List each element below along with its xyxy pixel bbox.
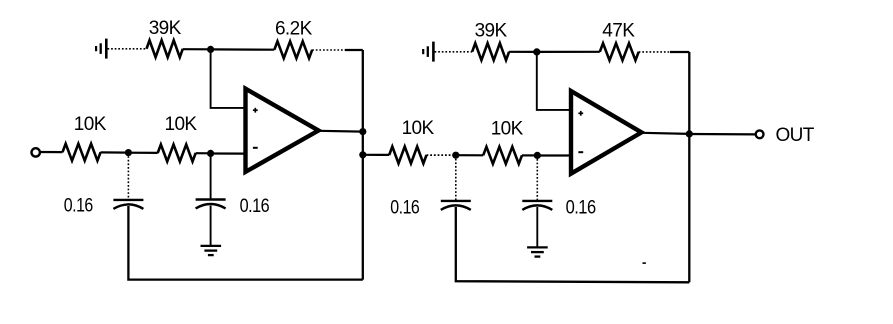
op-amp U1 xyxy=(246,89,319,172)
resistor R1 39K xyxy=(147,40,183,57)
node D (junction dot) xyxy=(207,150,214,157)
resistor R8 10K xyxy=(483,147,522,164)
wire R2 to feedback corner (part dotted) xyxy=(312,49,345,51)
svg-text:0.16: 0.16 xyxy=(390,198,419,219)
node E (junction dot) xyxy=(452,152,459,159)
svg-text:0.16: 0.16 xyxy=(64,195,93,216)
svg-text:10K: 10K xyxy=(164,114,197,135)
wire C4 to ground xyxy=(536,207,538,247)
wire C2 to ground xyxy=(210,206,212,246)
ground G3 (sideways, left of R5) xyxy=(423,42,433,62)
wire R4 to node D xyxy=(196,152,211,154)
wire node D down to C2 xyxy=(210,153,212,199)
ground G4 (below C4) xyxy=(527,247,548,256)
svg-text:47K: 47K xyxy=(602,21,635,42)
capacitor plate (curved) xyxy=(441,205,471,210)
node A (junction dot, top line stage 1) xyxy=(207,46,214,53)
resistor R4 10K xyxy=(158,145,196,162)
resistor R6 47K xyxy=(600,43,639,60)
capacitor C4 0.16 xyxy=(522,201,552,210)
wire node C to R4 xyxy=(128,152,157,154)
wire node E down to C3 (dotted) xyxy=(455,155,457,201)
capacitor plate (curved) xyxy=(196,204,226,209)
svg-text:0.16: 0.16 xyxy=(566,198,596,219)
resistor R2 6.2K xyxy=(274,41,312,58)
wire G1 to R1 (dotted) xyxy=(108,48,147,50)
capacitor C1 0.16 xyxy=(113,200,143,209)
node G (junction dot, top line stage 2) xyxy=(533,48,540,55)
node C (junction dot) xyxy=(125,149,132,156)
capacitor plate (straight) xyxy=(113,199,143,201)
capacitor C2 0.16 xyxy=(196,200,226,209)
svg-text:10K: 10K xyxy=(74,114,107,135)
svg-text:10K: 10K xyxy=(402,118,435,139)
capacitor plate (curved) xyxy=(522,205,552,210)
capacitor plate (straight) xyxy=(441,200,471,202)
wire node to R7 xyxy=(363,154,389,156)
node F (junction dot) xyxy=(534,152,541,159)
input terminal xyxy=(32,148,40,156)
op-amp U2 xyxy=(571,91,642,174)
capacitor plate (straight) xyxy=(196,198,226,200)
node B (U1 output junction) xyxy=(359,128,366,135)
ground G2 (below C2) xyxy=(201,246,222,255)
resistor R3 10K xyxy=(63,144,101,161)
svg-text:10K: 10K xyxy=(491,119,524,140)
capacitor plate (straight) xyxy=(522,200,552,202)
OUT terminal xyxy=(756,130,764,138)
wire node D to U1 inverting input xyxy=(211,152,246,154)
wire C3 to bottom feedback line xyxy=(456,207,690,282)
wire node H to OUT terminal xyxy=(689,133,755,136)
wire R3 to node C xyxy=(101,151,129,153)
svg-text:6.2K: 6.2K xyxy=(275,19,313,40)
resistor R5 39K xyxy=(472,43,509,60)
stray speck xyxy=(643,262,646,264)
wire vertical feedback bus stage 1 (x=363) xyxy=(362,50,364,280)
wire node F to U2 inverting input xyxy=(537,154,571,156)
wire G3 to R5 (dotted) xyxy=(435,51,473,53)
wire node A down to + input xyxy=(211,49,246,108)
wire node G down to + input xyxy=(537,52,571,110)
svg-text:0.16: 0.16 xyxy=(240,196,270,217)
capacitor plate (curved) xyxy=(113,204,143,209)
wire input to R3 xyxy=(40,151,63,153)
ground G1 (sideways, left of R1) xyxy=(96,39,106,59)
wire node E to R8 xyxy=(456,154,483,156)
capacitor C3 0.16 xyxy=(441,201,471,210)
svg-text:39K: 39K xyxy=(149,18,182,39)
wire U1 output to bus xyxy=(319,130,363,133)
wire node C down to C1 (dotted) xyxy=(127,153,129,200)
wire R7 to node E (dotted) xyxy=(427,154,456,156)
wire node A to R2 xyxy=(211,48,275,50)
wire R5 to node G xyxy=(509,51,537,53)
wire R8 to node F xyxy=(522,154,537,156)
wire bus to R7 (stage 2 input) xyxy=(359,151,366,158)
node H (U2 output junction) xyxy=(686,130,693,137)
svg-text:OUT: OUT xyxy=(776,125,815,146)
wire C1 to bottom feedback line xyxy=(128,206,362,280)
wire node F down to C4 (dotted) xyxy=(536,155,538,200)
wire U2 output to bus xyxy=(642,133,690,134)
resistor R7 10K xyxy=(389,147,426,164)
wire R1 to node A xyxy=(183,48,211,50)
wire R6 to feedback corner (part dotted) xyxy=(639,51,670,53)
svg-text:39K: 39K xyxy=(475,21,508,42)
wire node G to R6 xyxy=(537,51,600,53)
wire vertical feedback bus stage 2 (x=689) xyxy=(688,52,690,282)
